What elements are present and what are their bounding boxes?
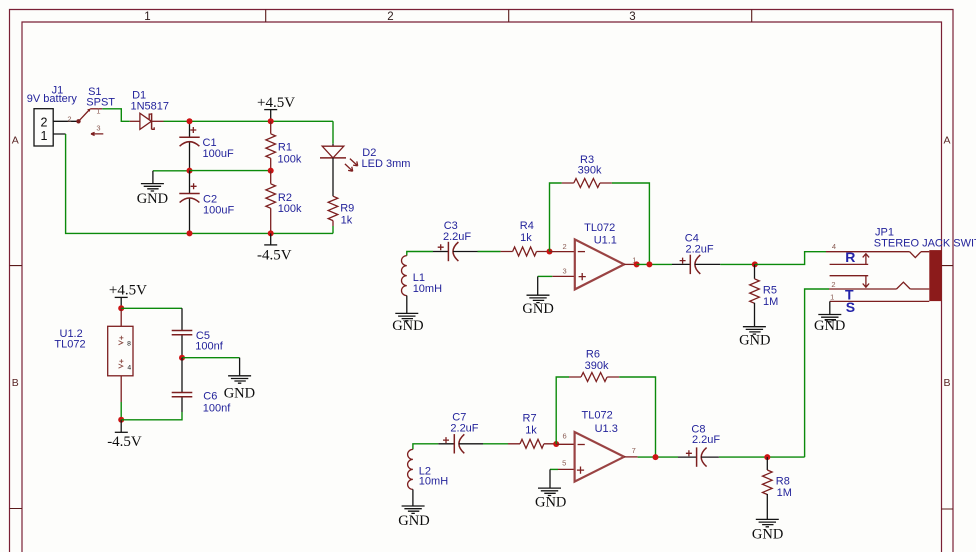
svg-text:10mH: 10mH [419, 476, 448, 488]
svg-text:LED 3mm: LED 3mm [362, 158, 411, 170]
wire C3 to R4 [478, 251, 501, 253]
capacitor C2 100uF [179, 171, 234, 234]
svg-text:GND: GND [522, 301, 553, 317]
svg-text:390k: 390k [585, 360, 609, 372]
resistor R5 1M [750, 264, 779, 326]
svg-text:1: 1 [144, 11, 150, 23]
svg-text:+4.5V: +4.5V [257, 95, 295, 111]
junction [187, 118, 193, 124]
svg-text:R7: R7 [523, 413, 537, 425]
svg-text:100uF: 100uF [203, 205, 234, 217]
svg-text:-4.5V: -4.5V [107, 434, 142, 450]
svg-text:2.2uF: 2.2uF [450, 422, 478, 434]
svg-text:1: 1 [830, 293, 834, 302]
svg-text:R4: R4 [520, 220, 534, 232]
junction [646, 261, 652, 267]
svg-text:GND: GND [752, 526, 783, 542]
junction [653, 454, 659, 460]
inductor L2 10mH [408, 449, 449, 506]
resistor R1 100k [266, 121, 302, 170]
svg-text:D2: D2 [362, 147, 376, 159]
op-amp U1.1 TL072 [550, 222, 638, 289]
svg-text:TL072: TL072 [54, 338, 85, 350]
capacitor C4 2.2uF [672, 233, 720, 274]
svg-text:R5: R5 [763, 284, 777, 296]
capacitor C3 2.2uF [433, 220, 478, 261]
svg-text:100k: 100k [278, 153, 302, 165]
svg-text:1: 1 [41, 129, 48, 143]
wire switch to diode [102, 109, 130, 122]
svg-text:100nf: 100nf [203, 403, 231, 415]
wire feedback right (stage 1) [612, 183, 650, 264]
junction [268, 168, 274, 174]
svg-text:3: 3 [629, 11, 635, 23]
svg-text:1M: 1M [763, 296, 778, 308]
svg-text:GND: GND [224, 385, 255, 401]
junction [118, 417, 124, 423]
svg-text:R6: R6 [586, 348, 600, 360]
resistor R9 1k [328, 196, 354, 233]
wire C8 to jack T riser [719, 456, 805, 458]
ground GND (power mid rail) [137, 171, 190, 207]
svg-text:2.2uF: 2.2uF [692, 434, 720, 446]
wire C4 to R5 node [720, 263, 755, 265]
svg-text:1k: 1k [341, 215, 353, 227]
inductor L1 10mH [401, 256, 442, 314]
svg-text:6: 6 [563, 431, 567, 440]
svg-text:GND: GND [535, 494, 566, 510]
ground GND (U1.1 +input) [522, 276, 553, 317]
svg-text:2: 2 [387, 11, 393, 23]
capacitor C7 2.2uF [438, 412, 483, 454]
svg-text:4: 4 [832, 242, 836, 251]
svg-text:STEREO JACK SWIT: STEREO JACK SWIT [874, 238, 976, 250]
svg-text:9V battery: 9V battery [27, 93, 78, 105]
svg-text:1k: 1k [525, 424, 537, 436]
LED D2 3mm [320, 144, 410, 196]
svg-text:2: 2 [67, 115, 71, 124]
wire jack T riser [805, 289, 829, 457]
switch S1 SPST [76, 86, 115, 135]
op-amp power U1.2 TL072 [54, 308, 133, 402]
svg-text:A: A [943, 135, 950, 147]
wire output U1.3 [638, 456, 678, 458]
svg-text:U1.1: U1.1 [594, 235, 617, 247]
svg-text:GND: GND [739, 333, 770, 349]
svg-text:390k: 390k [578, 164, 602, 176]
svg-text:GND: GND [392, 318, 423, 334]
svg-text:S: S [846, 299, 855, 315]
svg-text:4: 4 [127, 364, 131, 371]
junction [553, 441, 559, 447]
capacitor C6 100nf [172, 358, 232, 415]
supply -4.5V (U1.2) [107, 420, 142, 450]
wire R5 node to jack R pin [755, 252, 826, 265]
supply -4.5V [257, 233, 292, 263]
svg-text:1N5817: 1N5817 [131, 100, 170, 112]
svg-text:A: A [12, 135, 19, 147]
svg-text:SPST: SPST [86, 97, 115, 109]
wire output U1.1 [637, 263, 672, 265]
wire input node stage 2 [413, 444, 438, 450]
svg-text:+4.5V: +4.5V [109, 283, 147, 299]
svg-text:TL072: TL072 [582, 410, 613, 422]
junction [187, 168, 193, 174]
resistor R2 100k [266, 171, 302, 234]
junction [547, 249, 553, 255]
svg-text:R1: R1 [278, 142, 292, 154]
wire +4.5V to C5 [121, 307, 182, 309]
ground GND (R8) [752, 519, 783, 542]
ground GND (R5) [739, 327, 770, 349]
svg-text:B: B [943, 377, 950, 389]
connector JP1 stereo jack switch [826, 226, 976, 315]
svg-text:R8: R8 [776, 475, 790, 487]
svg-text:-4.5V: -4.5V [257, 247, 292, 263]
svg-text:2.2uF: 2.2uF [686, 244, 714, 256]
svg-text:R9: R9 [340, 203, 354, 215]
wire +rail after diode [164, 121, 334, 144]
svg-text:R: R [845, 249, 855, 265]
connector J1 9V battery [27, 85, 78, 147]
wire feedback left (stage 2) [556, 377, 569, 444]
resistor R7 1k [508, 413, 556, 449]
wire input node stage 1 [407, 252, 433, 256]
supply +4.5V (U1.2) [109, 283, 147, 309]
junction [179, 355, 185, 361]
supply +4.5V [257, 95, 295, 122]
svg-text:TL072: TL072 [584, 222, 615, 234]
svg-text:C6: C6 [203, 390, 217, 402]
wire C6 to -4.5V node [121, 412, 182, 420]
svg-text:JP1: JP1 [875, 226, 894, 238]
svg-text:8: 8 [127, 341, 131, 348]
ground GND (C5/C6) [182, 358, 255, 402]
ground GND (L1) [392, 313, 423, 334]
svg-text:GND: GND [398, 513, 429, 529]
junction [752, 261, 758, 267]
wire mid rail [190, 170, 271, 172]
svg-text:3: 3 [96, 123, 100, 132]
svg-text:GND: GND [137, 191, 168, 207]
wire feedback left (stage 1) [550, 183, 562, 252]
ground GND (jack sleeve) [814, 301, 845, 334]
svg-text:B: B [12, 377, 19, 389]
svg-text:2: 2 [563, 242, 567, 251]
junction [634, 261, 640, 267]
resistor R6 390k [569, 348, 619, 381]
junction [268, 230, 274, 236]
svg-text:GND: GND [814, 318, 845, 334]
capacitor C5 100nf [172, 308, 224, 357]
svg-text:2: 2 [41, 116, 48, 130]
svg-text:U1.3: U1.3 [595, 423, 618, 435]
svg-text:10mH: 10mH [413, 283, 442, 295]
junction [764, 454, 770, 460]
svg-text:7: 7 [632, 446, 636, 455]
resistor R3 390k [562, 154, 612, 187]
wire C7 to R7 [483, 443, 508, 445]
wire battery negative to -4.5V rail [66, 134, 333, 233]
capacitor C8 2.2uF [678, 423, 720, 467]
resistor R4 1k [501, 220, 550, 256]
svg-text:1k: 1k [520, 232, 532, 244]
wire U1.2 minus lead [120, 402, 122, 420]
ground GND (U1.3 +input) [535, 469, 566, 510]
ground GND (L2) [398, 506, 429, 529]
svg-text:2: 2 [831, 280, 835, 289]
capacitor C1 100uF [179, 121, 234, 170]
diode D1 1N5817 [130, 90, 169, 130]
wire feedback right (stage 2) [619, 377, 655, 457]
junction [268, 118, 274, 124]
junction [118, 305, 124, 311]
svg-text:100k: 100k [278, 203, 302, 215]
svg-text:3: 3 [563, 267, 567, 276]
op-amp U1.3 TL072 [556, 410, 637, 482]
svg-text:100nf: 100nf [195, 341, 223, 353]
resistor R8 1M [763, 457, 792, 519]
junction [187, 230, 193, 236]
svg-text:2.2uF: 2.2uF [443, 231, 471, 243]
svg-text:100uF: 100uF [203, 148, 234, 160]
svg-text:5: 5 [562, 458, 566, 467]
svg-text:1M: 1M [777, 487, 792, 499]
